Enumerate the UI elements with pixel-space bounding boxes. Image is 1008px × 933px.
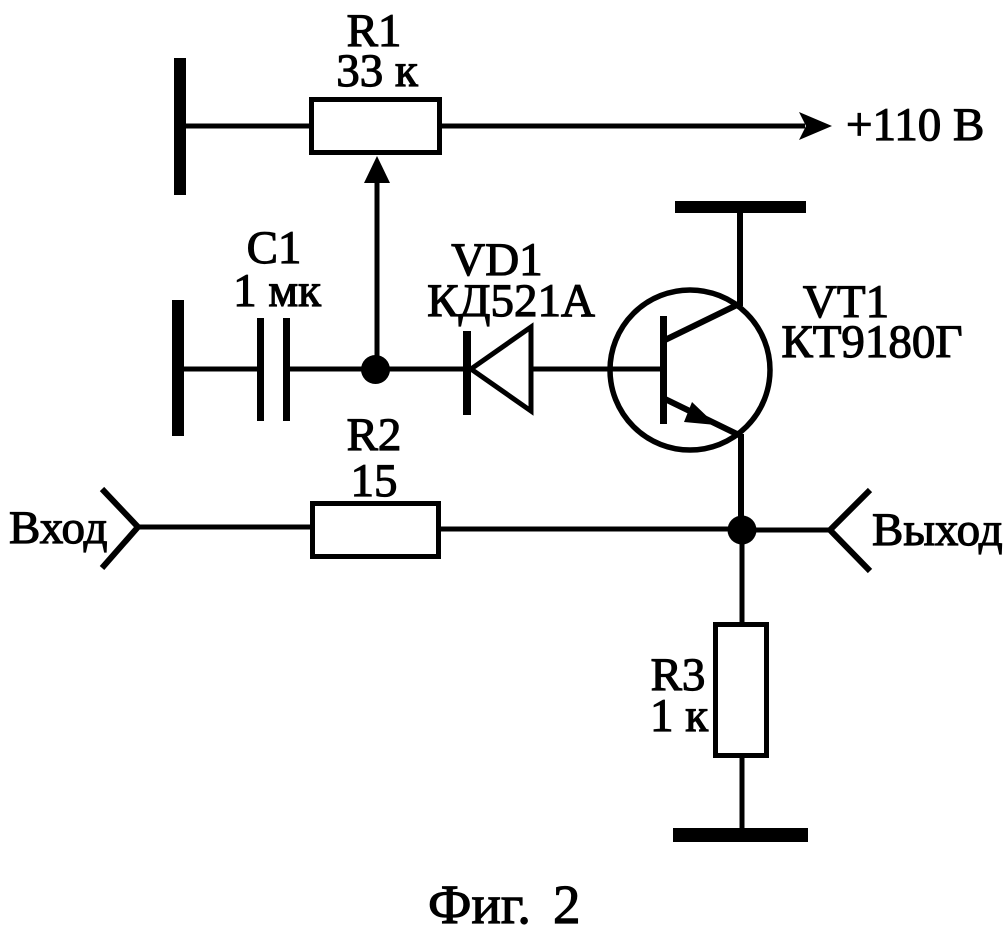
arrowhead +110 V: [799, 112, 832, 140]
resistor R2: [313, 504, 439, 557]
wire emitter down to output node: [738, 434, 744, 522]
wire R3 to ground bar: [740, 755, 745, 830]
svg-text:1 мк: 1 мк: [233, 265, 321, 317]
svg-text:+110 В: +110 В: [846, 99, 984, 151]
wire middle-left bar to C1: [180, 367, 258, 372]
svg-text:Выход: Выход: [872, 504, 1003, 556]
wire output node to R3: [740, 542, 745, 624]
transistor VT1: [610, 290, 770, 450]
output terminal chevron: [830, 490, 870, 571]
wire node to output chevron: [754, 528, 830, 533]
svg-text:1 к: 1 к: [650, 690, 708, 742]
wire R1 to +110 V arrow: [440, 124, 805, 129]
wire C1 to node: [290, 367, 366, 372]
node junction output: [728, 516, 757, 545]
svg-text:Фиг.: Фиг.: [428, 874, 531, 933]
resistor R1: [312, 100, 440, 153]
svg-text:R2: R2: [347, 409, 402, 461]
capacitor C1: [257, 318, 290, 421]
svg-text:33 к: 33 к: [336, 45, 418, 97]
wire node to diode VD1: [388, 367, 466, 372]
wire R2 to output node: [439, 527, 730, 532]
svg-text:КД521А: КД521А: [427, 275, 595, 327]
svg-text:2: 2: [553, 874, 581, 933]
power rail bar top (collector supply): [675, 201, 806, 213]
terminal bar top-left: [174, 58, 186, 195]
input terminal chevron: [102, 489, 138, 568]
wire collector to top bar: [737, 212, 743, 306]
resistor R3: [716, 625, 767, 756]
svg-text:Вход: Вход: [9, 502, 108, 554]
diode VD1: [467, 327, 531, 415]
node junction base: [361, 355, 390, 384]
wire diode to transistor base: [531, 367, 661, 372]
ground bar bottom: [673, 828, 808, 842]
wiper arrow of R1: [364, 156, 390, 369]
svg-text:КТ9180Г: КТ9180Г: [781, 316, 962, 368]
svg-text:15: 15: [351, 455, 398, 507]
wire input chevron to R2: [138, 525, 313, 530]
wire top-left bar to R1: [182, 124, 312, 129]
terminal bar middle-left: [172, 300, 184, 436]
